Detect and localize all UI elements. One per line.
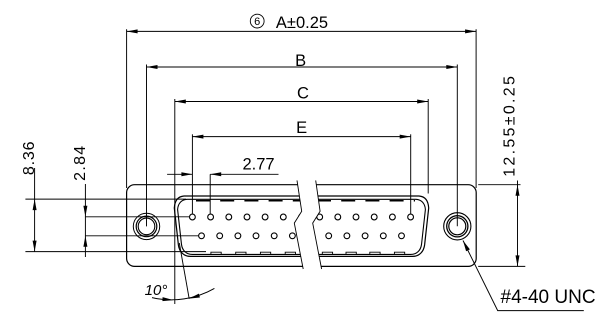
top pin row xyxy=(190,214,414,220)
D-shell outer contour xyxy=(174,196,428,256)
arrow 8.36 bottom xyxy=(33,241,37,252)
dimension 2.77 line xyxy=(167,173,192,175)
svg-text:B: B xyxy=(295,52,306,70)
leader line #4-40 xyxy=(463,241,584,311)
mounting hole right inner circle xyxy=(447,216,468,237)
ext line E right xyxy=(410,134,412,213)
bottom tab 6 xyxy=(346,252,356,254)
mounting hole left outer circle xyxy=(133,213,159,239)
shell slant extension line for angle xyxy=(179,243,189,299)
circled 6 xyxy=(250,14,264,28)
break gap white mask xyxy=(294,179,321,270)
mounting hole left bore circle xyxy=(138,218,155,235)
ext line A right xyxy=(475,29,477,188)
bottom tab 7 xyxy=(370,252,380,254)
arrow E left xyxy=(192,135,203,139)
dimension 2.84 line xyxy=(84,184,86,257)
ext line E left xyxy=(191,134,193,213)
ext line 12.55 top xyxy=(478,184,520,186)
arrow 2.84 bottom xyxy=(83,236,87,247)
bottom tab 8 xyxy=(394,252,404,254)
arrow 2.84 top xyxy=(83,206,87,217)
ext line B right xyxy=(456,65,458,227)
ext line 8.36 top xyxy=(25,198,186,200)
svg-text:2.77: 2.77 xyxy=(242,155,274,173)
ext line B left xyxy=(146,65,148,227)
arrow C right xyxy=(417,100,428,104)
arrow C left xyxy=(175,100,186,104)
svg-text:#4-40 UNC: #4-40 UNC xyxy=(501,287,596,308)
mounting hole right bore circle xyxy=(449,218,466,235)
svg-text:10°: 10° xyxy=(145,282,168,299)
bottom tab 4 xyxy=(285,252,295,254)
ext line C right xyxy=(427,99,429,194)
arrow B left xyxy=(147,65,158,69)
bottom tab 1 xyxy=(211,252,221,254)
arrow angle left xyxy=(162,297,173,301)
dimension A line xyxy=(25,29,583,310)
arrow 12.55 top xyxy=(516,185,520,196)
arrow A left xyxy=(127,29,138,33)
ext line pin row bottom xyxy=(85,235,198,237)
svg-text:A±0.25: A±0.25 xyxy=(276,14,328,32)
bottom pin row xyxy=(199,233,405,239)
angle arc xyxy=(152,288,214,299)
dimension 12.55 line xyxy=(517,181,519,267)
break line right xyxy=(313,180,322,269)
svg-text:12.55±0.25: 12.55±0.25 xyxy=(502,74,519,177)
svg-text:2.84: 2.84 xyxy=(72,145,89,181)
ext line pin row top xyxy=(85,216,189,218)
arrow B right xyxy=(446,65,457,69)
dimension C line xyxy=(175,101,428,103)
arrow leader #4-40 xyxy=(463,241,470,252)
bottom tab 2 xyxy=(236,252,246,254)
shell top hidden dashed line xyxy=(196,200,415,202)
bottom tab 3 xyxy=(260,252,270,254)
arrow 12.55 bottom xyxy=(516,255,520,266)
ext line 8.36 bottom xyxy=(25,251,206,253)
dimension 8.36 line xyxy=(34,168,36,252)
mounting hole left inner circle xyxy=(136,216,157,237)
mounting hole right outer circle xyxy=(444,213,471,240)
arrow E right xyxy=(400,135,411,139)
svg-text:6: 6 xyxy=(254,16,260,28)
break line left xyxy=(294,180,303,269)
ext line C left / angle reference xyxy=(174,99,176,304)
bottom tab 5 xyxy=(322,252,332,254)
arrow angle right xyxy=(189,294,200,299)
arrow 8.36 top xyxy=(33,199,37,210)
arrowheads xyxy=(33,29,520,301)
svg-text:8.36: 8.36 xyxy=(21,141,38,175)
dimension E line xyxy=(192,136,410,138)
arrow 2.77 left xyxy=(181,172,192,176)
D-shell inner contour xyxy=(178,199,426,254)
svg-text:E: E xyxy=(296,119,307,137)
ext line 12.55 bottom xyxy=(478,265,525,267)
arrow A right xyxy=(465,29,476,33)
arrow 2.77 right xyxy=(210,172,221,176)
dimension B line xyxy=(147,66,458,68)
ext line pin2 xyxy=(209,174,211,213)
svg-text:C: C xyxy=(297,85,309,103)
connector flange outline xyxy=(127,185,477,267)
ext line A left xyxy=(126,29,128,188)
